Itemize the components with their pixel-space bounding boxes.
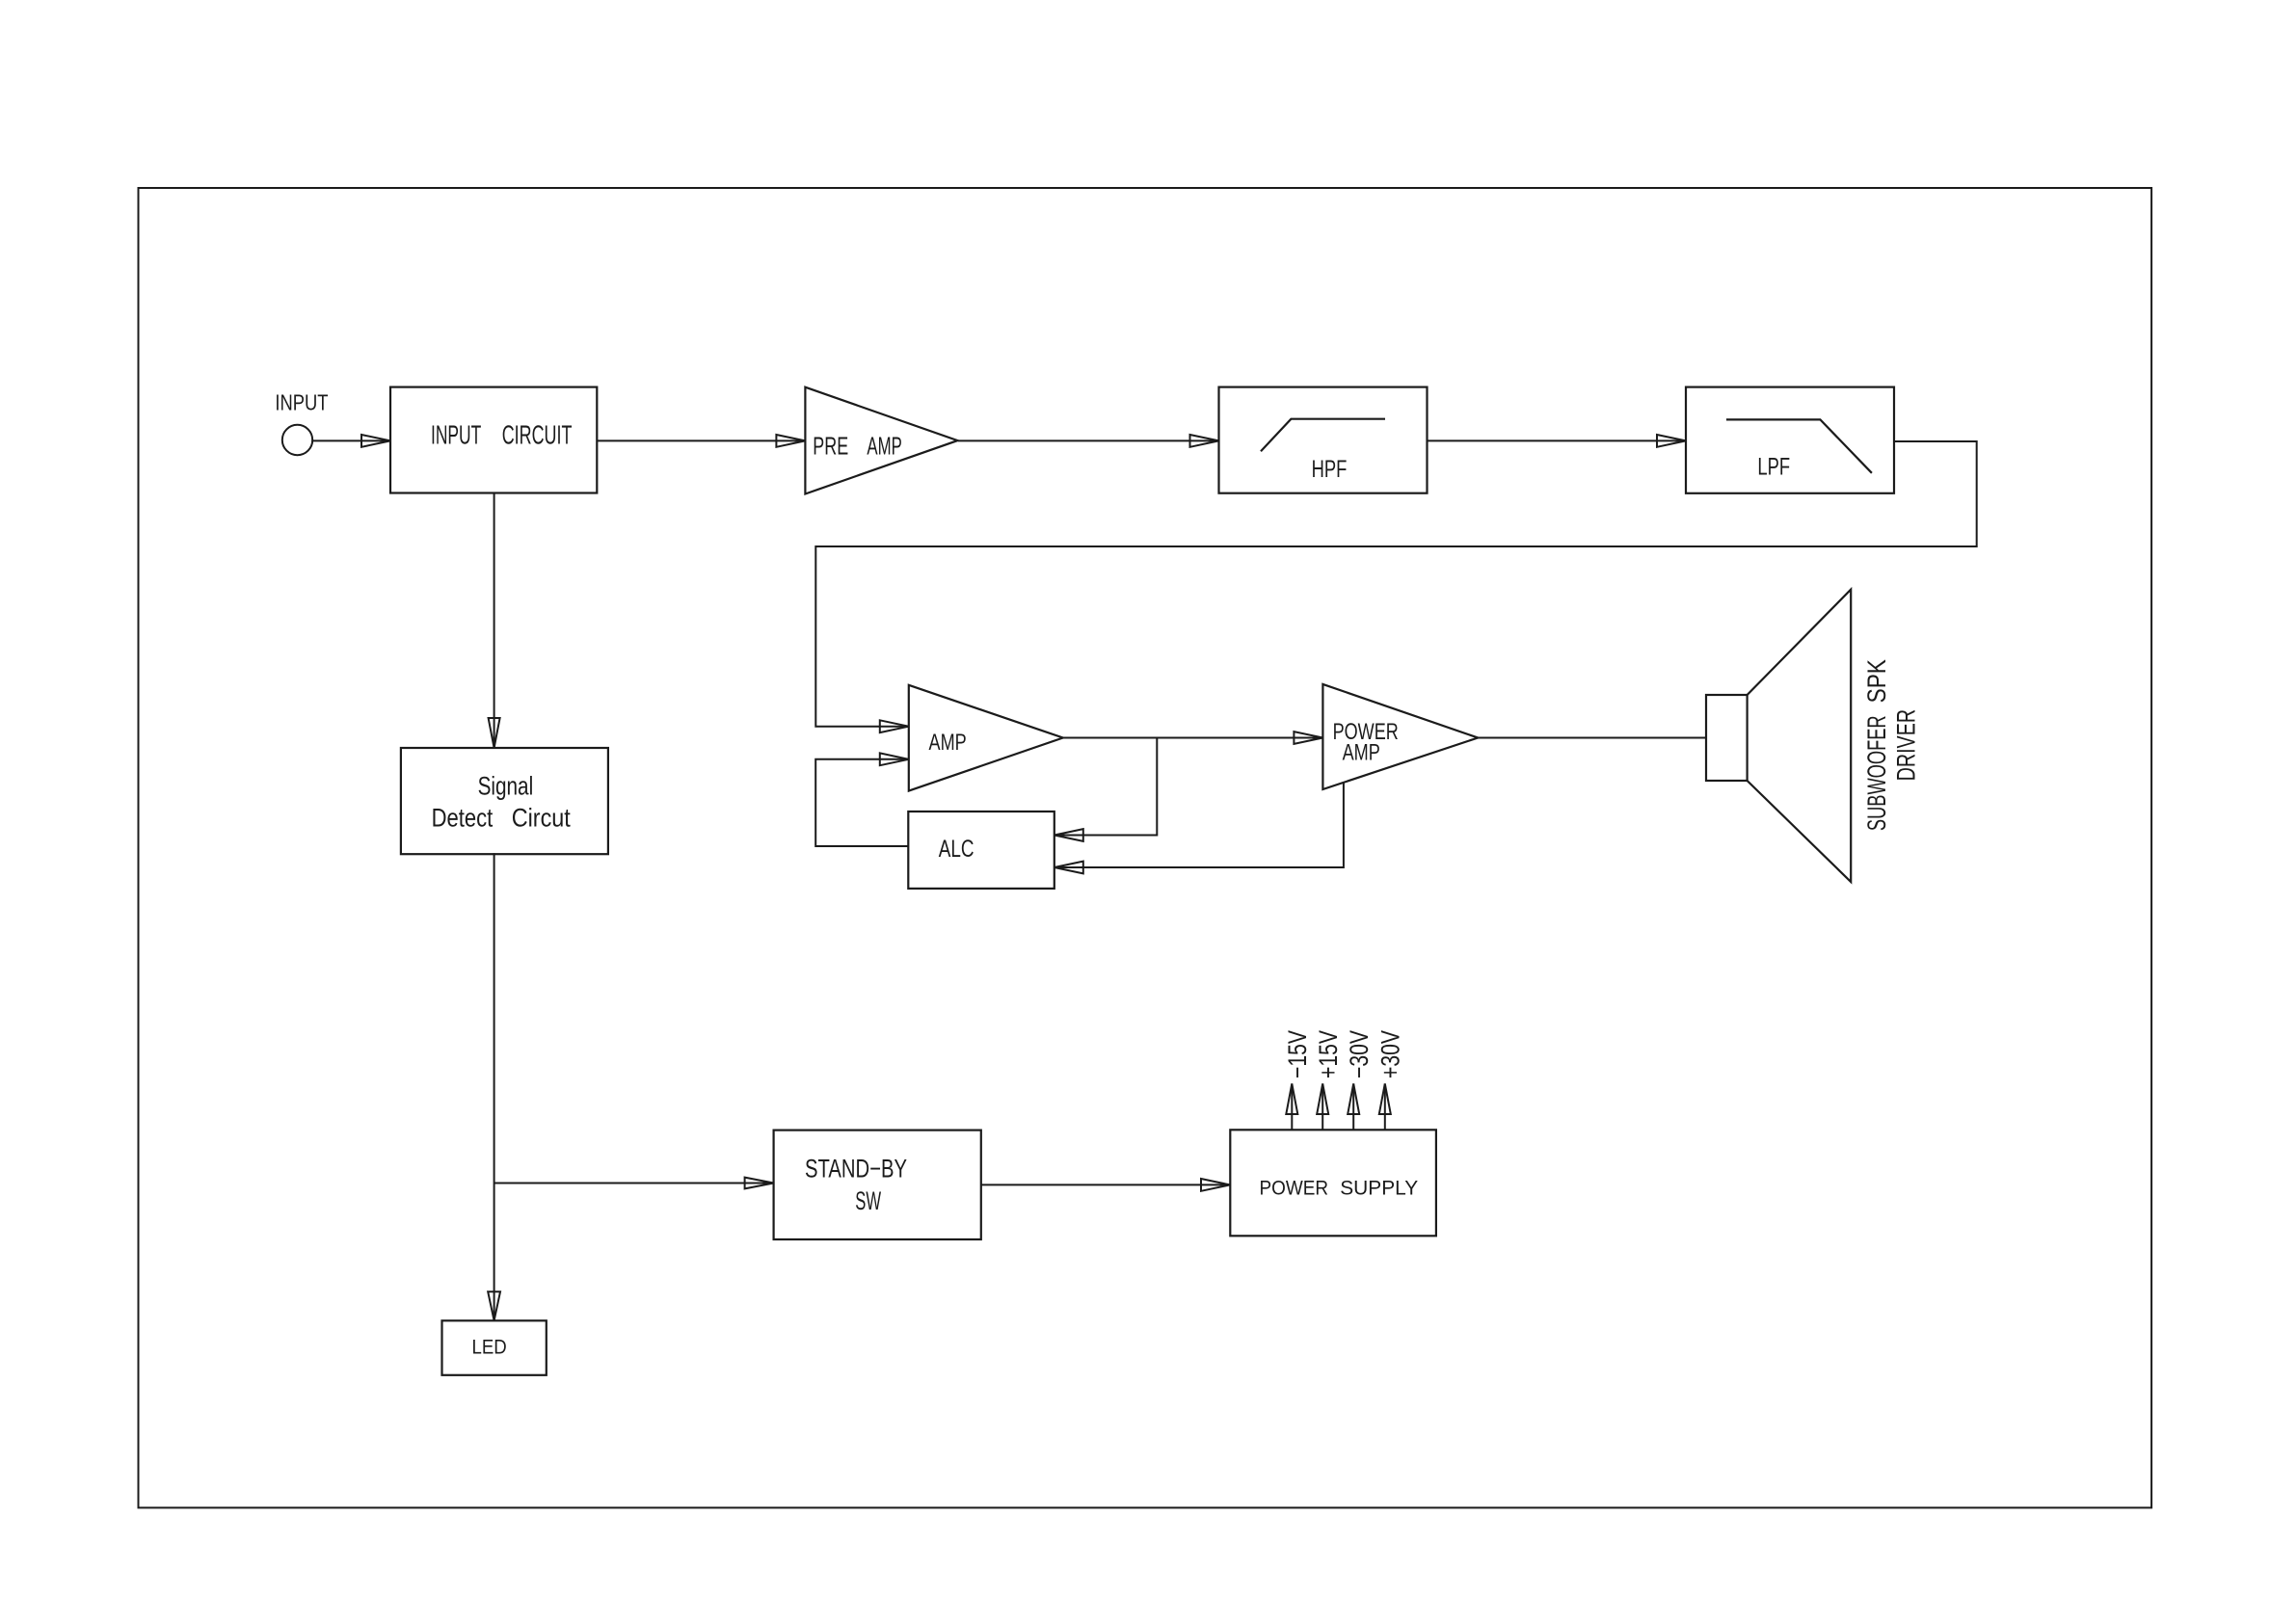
output +15V bbox=[1314, 1030, 1343, 1131]
wire AMP output tap to ALC input bbox=[1055, 738, 1158, 841]
block LPF (low pass filter) bbox=[1686, 387, 1894, 493]
node INPUT (input connector) bbox=[275, 390, 328, 456]
block ALC bbox=[908, 811, 1055, 889]
wire AMP to POWER AMP bbox=[1063, 732, 1323, 744]
wire POWER AMP feedback tap to ALC input bbox=[1055, 783, 1344, 874]
wire input to INPUT CIRCUIT bbox=[311, 435, 390, 447]
block STAND-BY SW bbox=[774, 1131, 981, 1239]
svg-text:SW: SW bbox=[855, 1186, 881, 1215]
amplifier PRE AMP bbox=[805, 387, 957, 494]
wire Signal Detect Circut to LED bbox=[488, 853, 500, 1320]
svg-text:STAND−BY: STAND−BY bbox=[805, 1154, 907, 1183]
wire INPUT CIRCUIT to PRE AMP bbox=[597, 435, 805, 447]
output -15V bbox=[1283, 1030, 1312, 1131]
svg-text:INPUT: INPUT bbox=[275, 390, 328, 415]
wire INPUT CIRCUIT to Signal Detect Circut bbox=[489, 493, 500, 749]
svg-text:Circut: Circut bbox=[512, 804, 572, 833]
speaker SUBWOOFER SPK DRIVER bbox=[1706, 590, 1920, 882]
svg-text:−30V: −30V bbox=[1345, 1030, 1374, 1078]
block POWER SUPPLY bbox=[1230, 1130, 1436, 1236]
wire LPF feedback to AMP input bbox=[815, 441, 1976, 732]
output +30V bbox=[1376, 1030, 1405, 1131]
wire PRE AMP to HPF bbox=[958, 435, 1219, 447]
svg-text:AMP: AMP bbox=[929, 730, 967, 756]
svg-text:AMP: AMP bbox=[867, 434, 901, 461]
svg-text:HPF: HPF bbox=[1312, 457, 1348, 483]
svg-text:DRIVER: DRIVER bbox=[1891, 709, 1920, 782]
wire HPF to LPF bbox=[1428, 435, 1687, 447]
svg-text:POWER: POWER bbox=[1260, 1177, 1329, 1200]
svg-text:CIRCUIT: CIRCUIT bbox=[502, 419, 573, 449]
wire ALC output to AMP second input bbox=[815, 753, 909, 846]
svg-text:Detect: Detect bbox=[432, 804, 494, 833]
svg-text:ALC: ALC bbox=[939, 837, 974, 863]
wire POWER AMP to speaker bbox=[1478, 737, 1706, 739]
block Signal Detect Circut bbox=[401, 748, 608, 854]
svg-text:Signal: Signal bbox=[478, 772, 534, 801]
svg-text:PRE: PRE bbox=[813, 434, 848, 461]
block LED bbox=[442, 1320, 547, 1375]
svg-text:LPF: LPF bbox=[1757, 454, 1790, 480]
svg-text:INPUT: INPUT bbox=[431, 419, 481, 449]
svg-text:+15V: +15V bbox=[1314, 1030, 1343, 1078]
wire STAND-BY SW to POWER SUPPLY bbox=[981, 1179, 1230, 1191]
block HPF (high pass filter) bbox=[1219, 387, 1428, 493]
svg-text:SPK: SPK bbox=[1862, 659, 1891, 704]
svg-text:−15V: −15V bbox=[1283, 1030, 1312, 1078]
block INPUT CIRCUIT bbox=[390, 387, 597, 493]
amplifier AMP bbox=[909, 685, 1063, 791]
svg-text:SUPPLY: SUPPLY bbox=[1340, 1177, 1418, 1200]
svg-text:+30V: +30V bbox=[1376, 1030, 1405, 1078]
svg-text:SUBWOOFER: SUBWOOFER bbox=[1862, 715, 1891, 831]
svg-text:AMP: AMP bbox=[1343, 741, 1380, 766]
amplifier POWER AMP bbox=[1322, 684, 1478, 789]
output -30V bbox=[1345, 1030, 1374, 1131]
svg-text:LED: LED bbox=[472, 1336, 507, 1359]
wire branch to STAND-BY SW bbox=[494, 1178, 774, 1189]
